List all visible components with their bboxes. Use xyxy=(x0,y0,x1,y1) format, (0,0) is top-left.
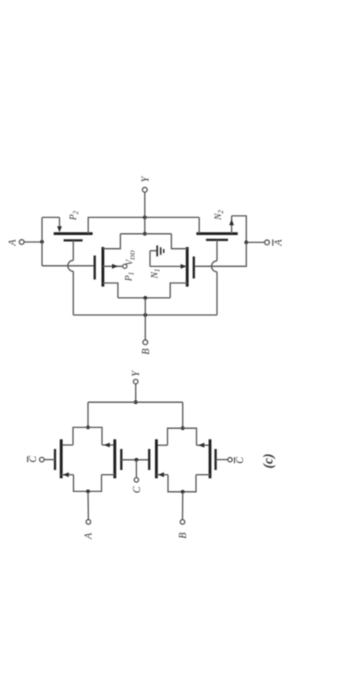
label (c) xyxy=(261,454,276,469)
wire N1 body to ground xyxy=(150,251,187,269)
wire A drop (mux) xyxy=(87,491,89,519)
wire N2 gate lead with hop xyxy=(212,240,217,315)
wire Y rail (mux) xyxy=(88,401,183,403)
node B terminal xyxy=(141,340,152,355)
node A terminal (mux) xyxy=(84,520,95,540)
node C junction xyxy=(135,458,139,462)
node VDD body terminal of P1 xyxy=(103,250,137,269)
node TG1 top xyxy=(86,426,90,430)
svg-text:A: A xyxy=(273,239,284,247)
wire Y rail xyxy=(88,216,200,218)
wire B drop (mux) xyxy=(182,492,184,520)
wire Abar lead-out xyxy=(246,241,264,243)
svg-text:VDD: VDD xyxy=(124,250,136,265)
node Cbar terminal (left) xyxy=(28,456,45,463)
node Y rail junction xyxy=(134,400,138,404)
wire drop to TG2 xyxy=(182,402,184,428)
wire drop to TG1 xyxy=(87,402,89,427)
transistor P2 xyxy=(54,210,93,240)
wire TG1 left gate lead xyxy=(44,459,55,461)
node Cbar terminal (right) xyxy=(228,457,246,464)
svg-text:B: B xyxy=(178,532,189,538)
node Y terminal xyxy=(140,175,151,192)
node C terminal xyxy=(132,478,143,493)
svg-text:C: C xyxy=(132,486,143,493)
wire gate bus TG1-TG2 xyxy=(121,459,149,461)
svg-text:Y: Y xyxy=(131,370,142,377)
wire P2 drain up xyxy=(87,217,89,233)
wire inverter top rail xyxy=(120,233,171,235)
wire inverter bottom rail xyxy=(118,297,170,299)
node B terminal (mux) xyxy=(178,520,189,539)
wire Y drop xyxy=(144,192,146,234)
wire Abar down-left to N1 gate xyxy=(195,242,247,266)
wire N1 drain to top rail xyxy=(171,234,187,249)
wire C stub xyxy=(135,460,137,478)
wire P1 source to bottom rail xyxy=(103,283,118,298)
wire Y stub xyxy=(135,384,137,402)
svg-text:A: A xyxy=(84,532,95,540)
node TG2 bottom xyxy=(181,490,185,494)
wire P2 gate lead with hop xyxy=(68,240,74,315)
ground xyxy=(157,245,164,256)
svg-text:A: A xyxy=(8,239,19,247)
svg-text:C: C xyxy=(28,456,39,463)
svg-text:B: B xyxy=(141,348,152,354)
wire A lead-in xyxy=(24,241,42,243)
wire A vertical xyxy=(41,217,43,265)
svg-text:(c): (c) xyxy=(261,454,276,469)
wire N2 source corner to Abar xyxy=(232,216,247,243)
transmission gate TG1 xyxy=(55,427,121,491)
svg-text:Y: Y xyxy=(140,175,151,182)
node A junction xyxy=(40,240,44,244)
svg-text:N1: N1 xyxy=(150,269,161,280)
transistor N1 xyxy=(150,247,194,287)
transistor N2 xyxy=(196,210,237,240)
transmission gate TG2 xyxy=(149,428,215,492)
node Y junction on rail xyxy=(143,216,147,220)
node Abar junction xyxy=(244,241,248,245)
node B junction on bus xyxy=(143,313,147,317)
wire bottom gate bus xyxy=(73,314,217,316)
wire A to P2 source xyxy=(42,216,60,218)
svg-text:P2: P2 xyxy=(69,210,80,221)
wire P1 drain to top rail xyxy=(103,234,121,249)
wire TG2 right gate lead xyxy=(216,459,228,461)
svg-text:P1: P1 xyxy=(124,272,135,282)
wire A to P1 gate xyxy=(42,265,94,267)
wire N2 drain up to rail xyxy=(198,217,200,233)
wire B drop xyxy=(144,298,146,340)
svg-text:N2: N2 xyxy=(214,210,225,221)
wire N1 source to bottom rail xyxy=(170,283,187,298)
transistor P1 xyxy=(95,247,136,287)
node Y terminal (mux) xyxy=(131,370,142,384)
node junction at inverter bottom rail xyxy=(143,296,147,300)
node junction at inverter top rail xyxy=(143,232,147,236)
node Abar terminal xyxy=(265,239,285,247)
node A terminal xyxy=(8,239,25,247)
node TG1 bottom xyxy=(86,490,90,494)
svg-text:C: C xyxy=(235,457,246,464)
node TG2 top xyxy=(181,426,185,430)
